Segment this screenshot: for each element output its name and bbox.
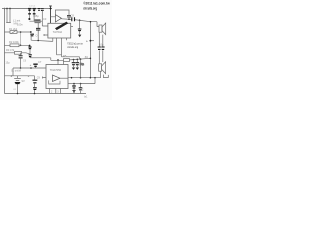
svg-text:la1: la1 — [84, 95, 88, 99]
wire right rail — [90, 22, 92, 78]
wire bus A — [62, 57, 80, 59]
wire vert x80 — [80, 59, 82, 77]
capacitor C18 filter — [34, 76, 36, 94]
inductor L1 — [6, 9, 11, 23]
capacitor C12 to gnd — [73, 60, 75, 68]
wire stub U3 left pin — [43, 77, 47, 79]
node c1 blob — [28, 18, 30, 20]
IC U2 banner — [55, 22, 68, 31]
capacitor C10 — [20, 53, 22, 68]
svg-text:circuits.org: circuits.org — [83, 7, 97, 11]
resistor R1 — [10, 31, 17, 34]
svg-text:©2011 la1.com.tw: ©2011 la1.com.tw — [83, 2, 110, 6]
svg-text:R5: R5 — [63, 54, 67, 58]
resistor R4 — [35, 20, 40, 23]
svg-text:C1 C2: C1 C2 — [29, 6, 36, 8]
wire spk1 feed — [91, 22, 100, 27]
capacitor C16 series — [98, 47, 101, 49]
capacitor C15 to rail — [80, 84, 82, 94]
capacitor C3 — [38, 9, 41, 11]
wire feedback loop — [51, 10, 70, 19]
svg-text:365p: 365p — [33, 14, 39, 18]
svg-text:+: + — [86, 39, 88, 43]
op-amp U1 — [55, 15, 61, 22]
wire row connector — [20, 32, 22, 45]
svg-text:100n: 100n — [17, 23, 23, 27]
wire opamp out — [61, 19, 90, 22]
wire c1 lead down — [29, 15, 31, 19]
capacitor C9 to gnd — [79, 20, 81, 34]
svg-text:+: + — [30, 63, 32, 67]
wire stub U2 left pins — [42, 26, 48, 36]
wire stub U2 bottom pins — [57, 38, 67, 57]
wire U3 output — [68, 71, 101, 78]
node top-left junction — [4, 8, 6, 10]
svg-text:C4: C4 — [36, 33, 40, 37]
wire U3 inner loop — [49, 80, 60, 84]
capacitor C1 trimmer — [28, 8, 31, 10]
ground gnd2 — [72, 68, 75, 70]
wire row3 — [4, 53, 29, 54]
capacitor C5 — [37, 23, 39, 40]
node antenna stub — [49, 6, 52, 23]
wire row2 — [4, 44, 30, 46]
battery B1 — [17, 76, 19, 94]
IC U3 box — [46, 65, 68, 89]
ground gnd1 — [78, 35, 81, 38]
wire bus B — [30, 58, 90, 61]
svg-text:R2 100k: R2 100k — [9, 40, 19, 44]
svg-text:S1 on/off: S1 on/off — [11, 69, 21, 72]
svg-text:10µ: 10µ — [99, 43, 104, 47]
capacitor C17 series — [101, 47, 104, 49]
ground gnd3 — [76, 68, 79, 70]
capacitor C6 feedback — [67, 15, 71, 17]
wire stub U2 right pin — [71, 26, 73, 28]
wire U3 out2 — [68, 83, 81, 85]
capacitor C7 electrolytic — [4, 31, 30, 33]
wire out lower — [81, 78, 96, 84]
wire c2 lead down — [33, 15, 35, 22]
svg-text:TA7642: TA7642 — [53, 30, 63, 34]
ground gnd4 — [72, 91, 75, 92]
speaker LS1 — [99, 25, 102, 32]
capacitor C11 electrolytic — [33, 64, 37, 66]
svg-text:10µ: 10µ — [6, 62, 11, 65]
wire left rail — [4, 9, 6, 94]
wire stub U3 bottom pins — [50, 89, 61, 94]
capacitor C8 series — [72, 17, 75, 21]
resistor R3 — [15, 51, 22, 54]
capacitor C9a — [29, 55, 32, 57]
wire row C7 to IC — [31, 38, 53, 41]
svg-text:R1 2k2: R1 2k2 — [9, 27, 18, 31]
svg-text:8Ω: 8Ω — [85, 56, 88, 59]
capacitor C14 to rail — [73, 84, 75, 94]
wire bottom rail — [5, 93, 87, 95]
wire top rail — [2, 8, 52, 10]
wire spk1 leads — [99, 32, 103, 64]
capacitor C13 to gnd — [76, 60, 78, 68]
svg-text:C3: C3 — [43, 17, 47, 21]
svg-text:circuits.org: circuits.org — [67, 45, 78, 49]
capacitor C4 — [41, 9, 44, 11]
IC U2 box — [48, 23, 71, 38]
wire spk2 right lead — [103, 75, 108, 78]
resistor R5 — [64, 59, 70, 62]
svg-text:+: + — [10, 74, 12, 78]
wire vcc stub — [90, 40, 94, 42]
op-amp U3a — [53, 75, 61, 82]
svg-text:C8: C8 — [71, 14, 75, 18]
svg-text:C7: C7 — [38, 60, 42, 64]
capacitor C2 trimmer — [33, 8, 36, 10]
svg-text:TDA7050: TDA7050 — [50, 68, 62, 72]
svg-text:9V: 9V — [22, 79, 25, 83]
svg-text:R3 47k: R3 47k — [6, 48, 15, 52]
speaker LS2 — [99, 64, 102, 71]
capacitor C8a — [28, 47, 31, 49]
resistor R2 — [10, 44, 19, 47]
wire stub U3 top pins — [58, 60, 64, 65]
wire long row to U3 — [4, 68, 46, 76]
